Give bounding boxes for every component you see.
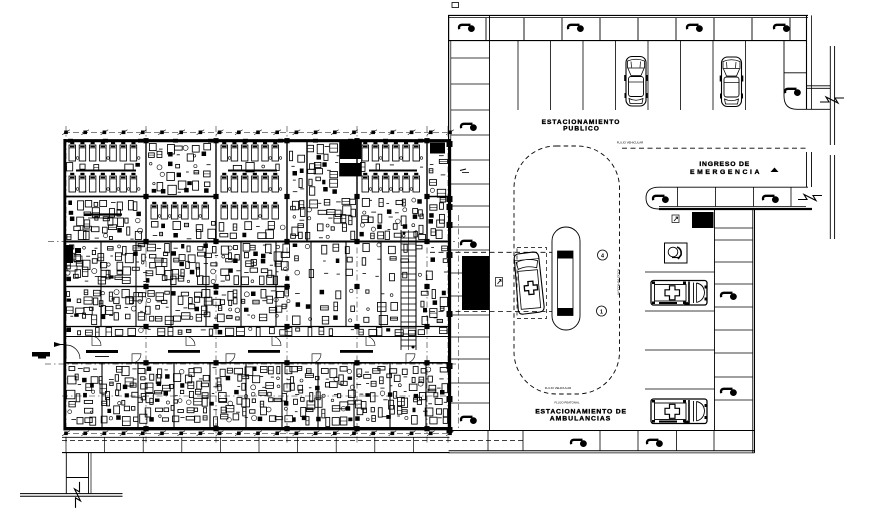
wall joint column blocks [143, 138, 429, 431]
label flujo vehicular bottom [545, 386, 572, 390]
bottom stall row [449, 209, 755, 453]
lamp left column 1 [461, 124, 477, 131]
stair block upper [340, 141, 362, 177]
lamp mid row 2 [763, 196, 779, 203]
car 2 top view [720, 57, 744, 107]
main entrance door swing [66, 345, 80, 359]
band2 furniture A [67, 201, 143, 240]
corridor tables [168, 350, 373, 353]
band5 dashed centerline [62, 395, 450, 397]
exit bottom double line [20, 494, 123, 497]
inner road segment [807, 152, 812, 187]
band2 lower wall [64, 241, 451, 243]
ambulance stall lines [645, 272, 715, 389]
lamp top row 1 [459, 25, 475, 32]
svg-text:FLUJO VEHICULAR: FLUJO VEHICULAR [545, 386, 572, 390]
corridor reception bar [86, 350, 118, 357]
lamp corner stall [785, 89, 801, 96]
band3 sink cluster dark [66, 245, 82, 271]
entrance canopy black [462, 256, 489, 310]
emergency road top dashed edge [622, 147, 808, 149]
vehicular flow loop dashed [514, 146, 620, 394]
sign icon arrow box [496, 278, 503, 287]
label flujo vehicular right [617, 269, 621, 296]
right stall column edges [715, 209, 753, 453]
text ESTACIONAMIENTO DE AMBULANCIAS [535, 409, 627, 423]
corner marker box [452, 3, 459, 8]
circled number 4 [598, 250, 608, 260]
median strip [558, 251, 574, 316]
top wall column blocks [68, 139, 423, 143]
mid row dividers [678, 187, 792, 206]
svg-text:INGRESO DE: INGRESO DE [699, 161, 750, 168]
walkway dividers [66, 437, 413, 452]
stairs ladder [401, 230, 416, 350]
svg-text:EMERGENCIA: EMERGENCIA [690, 169, 762, 176]
band2 conference table [84, 215, 122, 219]
right road lower segment [830, 155, 834, 239]
right rooms upper [429, 144, 448, 239]
corridor lower wall [64, 362, 451, 364]
upper band partitions [146, 141, 427, 242]
band4 right furniture [421, 290, 448, 325]
svg-text:AMBULANCIAS: AMBULANCIAS [550, 416, 612, 423]
top stall row dividers [486, 18, 790, 41]
circled number 1 [597, 306, 607, 316]
text INGRESO DE EMERGENCIA [690, 161, 762, 176]
section marker B [32, 352, 50, 359]
lamp mid row 1 [653, 196, 669, 203]
driveway dashed edge upper [430, 251, 552, 253]
ward E beds [360, 142, 423, 192]
band4 furniture left [67, 290, 291, 325]
upper right dark cabinet [430, 143, 445, 154]
mid stall row outline [646, 187, 812, 209]
lamp top row 2 [568, 25, 584, 32]
turnaround island [552, 227, 580, 330]
driveway dashed edge lower [430, 311, 552, 313]
corridor door swings [92, 337, 415, 363]
ward C beds [221, 142, 282, 192]
lamp left column 2 [461, 241, 477, 248]
grid dashed horizontal mid [48, 241, 455, 243]
svg-text:PUBLICO: PUBLICO [563, 125, 600, 132]
black pavement square [692, 212, 714, 228]
grid dashed horizontal corridor [45, 363, 458, 365]
ward band lower wall [64, 196, 451, 198]
svg-text:FLUJO VEHICULAR: FLUJO VEHICULAR [617, 141, 644, 145]
band3 lower wall [64, 286, 291, 288]
corridor upper wall [64, 336, 451, 338]
lamp left column 3 [461, 417, 477, 424]
road connector top [807, 86, 831, 89]
bottom row dividers [488, 431, 714, 451]
exit path lines [66, 453, 91, 494]
svg-text:FLUJO PEATONAL: FLUJO PEATONAL [554, 400, 580, 404]
left stall column inner edge [489, 15, 491, 430]
left exterior wall [63, 139, 66, 430]
section arrow [54, 342, 64, 347]
band2 furniture E [360, 198, 426, 239]
right wall column blocks [447, 141, 453, 433]
band34 gap details [67, 327, 448, 336]
lamp bottom row 1 [571, 440, 587, 447]
parking top stall row bottom line [448, 40, 807, 42]
ambulance stall dashed box [517, 248, 547, 319]
ward A beds [67, 142, 140, 192]
svg-text:4: 4 [601, 253, 604, 259]
lamp right column 1 [721, 293, 737, 300]
top exterior wall [64, 139, 451, 142]
corner stall column [784, 15, 830, 109]
lamp right column 2 [721, 389, 737, 396]
label flujo peatonal [554, 400, 580, 404]
right column dividers [715, 228, 753, 400]
car stall divider lines [518, 41, 746, 110]
lamp bottom row 2 [647, 440, 663, 447]
ambulance 1 side view [651, 281, 707, 306]
middle band partitions [101, 242, 416, 327]
band4 lower wall [64, 326, 451, 328]
column grid centerlines [66, 126, 448, 444]
band2 furniture C [219, 202, 285, 239]
lamp top row 4 [774, 25, 790, 32]
right exterior wall [448, 139, 451, 430]
band3 furniture right sparse [293, 243, 449, 281]
bottom exterior wall [64, 427, 451, 430]
ward D toilets [290, 144, 341, 195]
ward B bathroom cluster [149, 144, 211, 195]
band3 furniture left [65, 244, 289, 285]
label flujo vehicular top [617, 141, 644, 145]
band2 furniture D [291, 199, 356, 240]
parking top boundary wall [448, 15, 808, 17]
road break symbol 2 [798, 195, 822, 201]
small sign icon 1 [672, 215, 679, 223]
handicap parking symbol [665, 243, 688, 263]
svg-text:1: 1 [600, 309, 603, 315]
band5 furniture [67, 367, 448, 427]
band4 furniture right sparse [293, 289, 398, 324]
svg-text:ESTACIONAMIENTO DE: ESTACIONAMIENTO DE [535, 409, 627, 416]
parking left boundary wall [449, 15, 451, 430]
column axis dashed line [458, 215, 460, 430]
exit break symbol [75, 482, 81, 508]
road break symbol 1 [820, 97, 844, 103]
tiny stall text [460, 169, 469, 173]
lamp top row 3 [687, 25, 703, 32]
building bottom dimension line [62, 431, 454, 436]
band2 furniture B [151, 202, 216, 239]
building top dimension line [62, 130, 454, 135]
walkway band [62, 437, 523, 452]
svg-text:FLUJO VEHICULAR: FLUJO VEHICULAR [617, 269, 621, 296]
north arrow tick [771, 168, 779, 173]
ambulance 2 side view [651, 399, 707, 424]
lower band partitions [102, 363, 426, 429]
right road upper segment [830, 46, 834, 145]
left column dividers [451, 58, 490, 403]
ambulance top view at entrance [513, 251, 544, 314]
text ESTACIONAMIENTO PUBLICO [542, 119, 621, 132]
car 1 top view [624, 57, 648, 107]
